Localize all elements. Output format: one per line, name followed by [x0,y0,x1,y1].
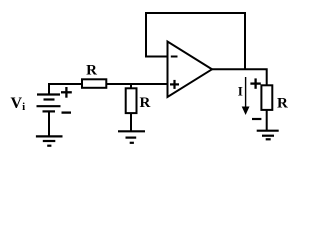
battery minus label [62,111,72,113]
svg-text:R: R [86,63,97,79]
wire battery to ground [48,111,50,136]
resistor R2 (shunt to ground) [126,88,137,113]
op-amp inverting input minus sign [171,56,178,58]
svg-text:I: I [238,84,243,99]
wire op-amp output to load [212,69,267,86]
minus label at load bottom [252,118,261,120]
wire R3 to ground [266,110,268,131]
resistor R1 (series input resistor) [82,79,106,88]
ground under R2 [118,131,145,143]
ground under battery [36,136,63,145]
battery plus label [61,87,72,98]
current arrow I [245,77,247,108]
resistor R3 (load resistor) [261,85,272,110]
plus label at load top [250,78,260,88]
op-amp U1 [168,42,213,98]
wire stub to shunt resistor R2 [130,84,132,89]
wire non-inverting input from battery node [49,84,167,95]
svg-text:R: R [140,95,151,111]
svg-text:R: R [277,96,288,112]
wire feedback loop from inverting input to output [146,13,245,69]
op-amp non-inverting input plus sign [170,80,179,89]
svg-text:Vi: Vi [11,95,26,113]
wire R2 to ground [130,113,132,131]
battery Vi source [37,95,61,112]
ground under R3 [257,131,279,140]
